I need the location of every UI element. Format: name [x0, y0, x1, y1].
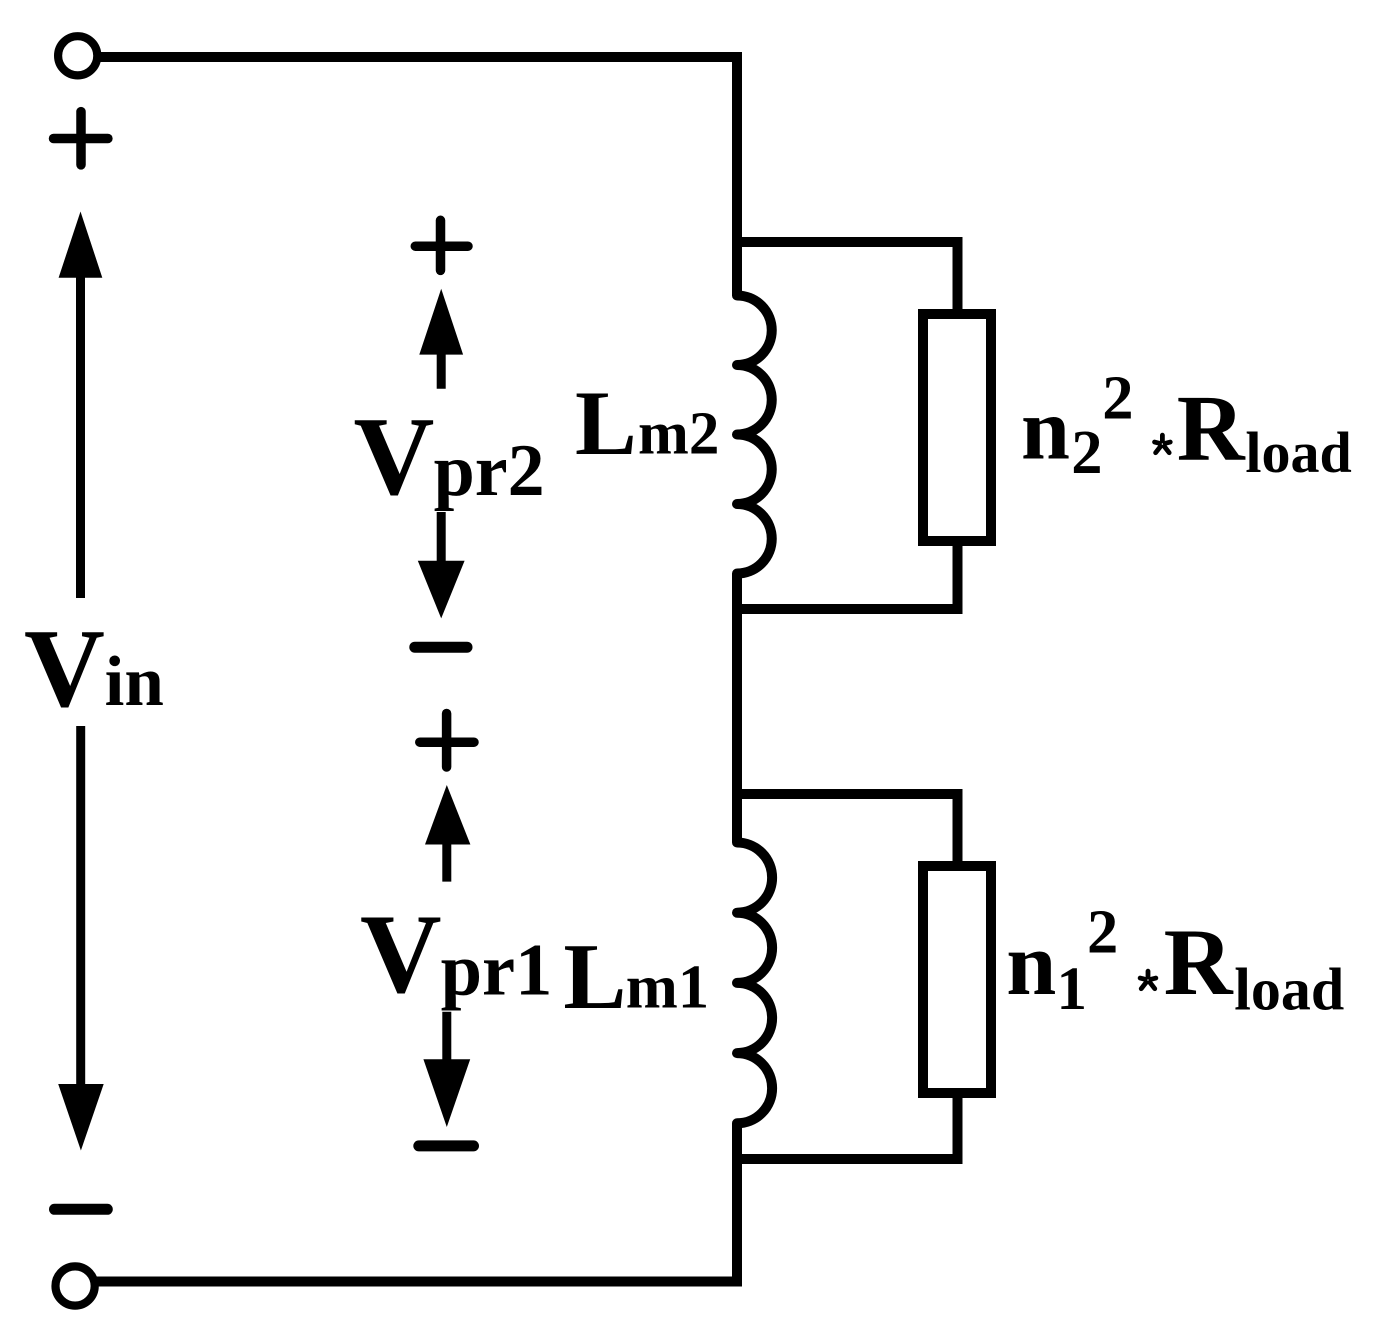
svg-text:R: R [1164, 909, 1234, 1015]
svg-text:V: V [24, 607, 105, 731]
svg-text:load: load [1234, 957, 1344, 1023]
svg-text:V: V [354, 395, 435, 519]
svg-text:2: 2 [1102, 363, 1133, 433]
svg-text:load: load [1245, 420, 1351, 485]
svg-text:L: L [563, 925, 626, 1029]
svg-text:pr1: pr1 [441, 930, 553, 1012]
svg-text:in: in [105, 643, 164, 721]
svg-text:n: n [1006, 915, 1056, 1014]
svg-text:2: 2 [1071, 417, 1102, 487]
svg-text:n: n [1021, 382, 1070, 479]
svg-text:1: 1 [1057, 956, 1088, 1023]
svg-text:V: V [360, 892, 442, 1017]
svg-text:L: L [575, 373, 637, 475]
svg-text:m1: m1 [626, 952, 709, 1022]
svg-text:m2: m2 [638, 401, 719, 468]
svg-text:2: 2 [1087, 897, 1118, 967]
svg-text:R: R [1177, 377, 1246, 481]
svg-text:pr2: pr2 [434, 430, 545, 512]
